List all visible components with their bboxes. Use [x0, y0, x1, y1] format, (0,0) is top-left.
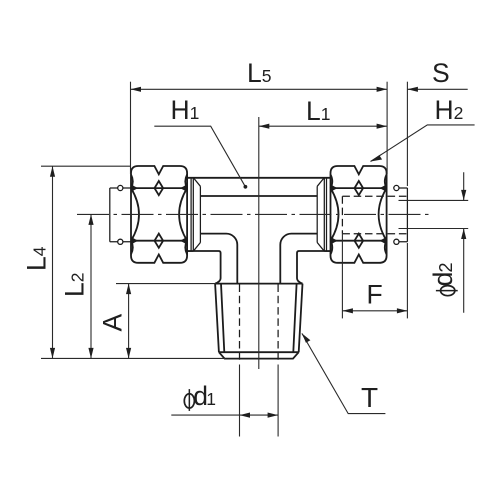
dimension F — [342, 310, 407, 312]
extension line right nut edge (L5/L1/S) — [386, 82, 388, 174]
tube stub (right port) — [394, 188, 407, 242]
dimension A (vertical) — [128, 284, 130, 359]
label T with leader arrow — [302, 333, 386, 413]
hidden bore of branch (dashed) — [240, 285, 279, 362]
extension line thread top (A) — [116, 283, 216, 285]
svg-text:d: d — [428, 272, 458, 287]
gland washer (right) — [317, 178, 330, 252]
svg-text:1: 1 — [206, 389, 216, 409]
svg-text:L4: L4 — [22, 246, 52, 271]
tapered male thread — [215, 283, 302, 285]
dimension L5 — [131, 88, 388, 90]
collet bracket (left port) — [110, 188, 131, 242]
dimension L2 (vertical) — [90, 214, 92, 358]
svg-text:L1: L1 — [306, 96, 330, 126]
dimension phi-d2 (vertical, right) — [463, 172, 465, 312]
collet circles (left) — [118, 185, 123, 190]
svg-text:H2: H2 — [435, 95, 464, 125]
tee body outline — [187, 177, 330, 179]
dimension L4 (vertical) — [52, 166, 54, 358]
svg-text:S: S — [432, 58, 450, 88]
svg-text:F: F — [367, 280, 383, 310]
dimension S — [407, 88, 467, 90]
extension line F right — [406, 243, 408, 318]
extension line left (L5) — [130, 82, 132, 174]
extension lines for phi-d1 — [240, 365, 279, 437]
horizontal centerline — [77, 213, 430, 215]
svg-text:A: A — [98, 314, 128, 332]
svg-text:H1: H1 — [171, 95, 200, 125]
compression nut (left), hex side view — [131, 166, 187, 263]
svg-text:T: T — [361, 382, 378, 413]
extension lines for phi-d2 — [399, 200, 469, 228]
extension line F left — [341, 234, 343, 319]
dimension L1 — [259, 125, 387, 127]
compression nut (right), mirror of left — [330, 166, 386, 263]
extension line bottom of thread (L4/L2/A) — [41, 357, 225, 359]
svg-text:L5: L5 — [247, 58, 271, 88]
svg-text:2: 2 — [436, 262, 456, 272]
label H2 with leader arrow — [371, 125, 475, 162]
extension line top of nut (L4) — [41, 165, 131, 167]
extension line tube stub end (S) — [406, 82, 408, 186]
dimension phi-d1 — [171, 414, 278, 416]
collet circles (right) — [394, 185, 399, 190]
svg-text:L2: L2 — [60, 273, 90, 297]
branch vertical centerline / L1 extension — [258, 117, 260, 369]
hidden tube in right port (dashed) — [342, 196, 407, 234]
label H1 with leader and dot — [154, 126, 245, 187]
gland washer (left) — [187, 178, 200, 252]
